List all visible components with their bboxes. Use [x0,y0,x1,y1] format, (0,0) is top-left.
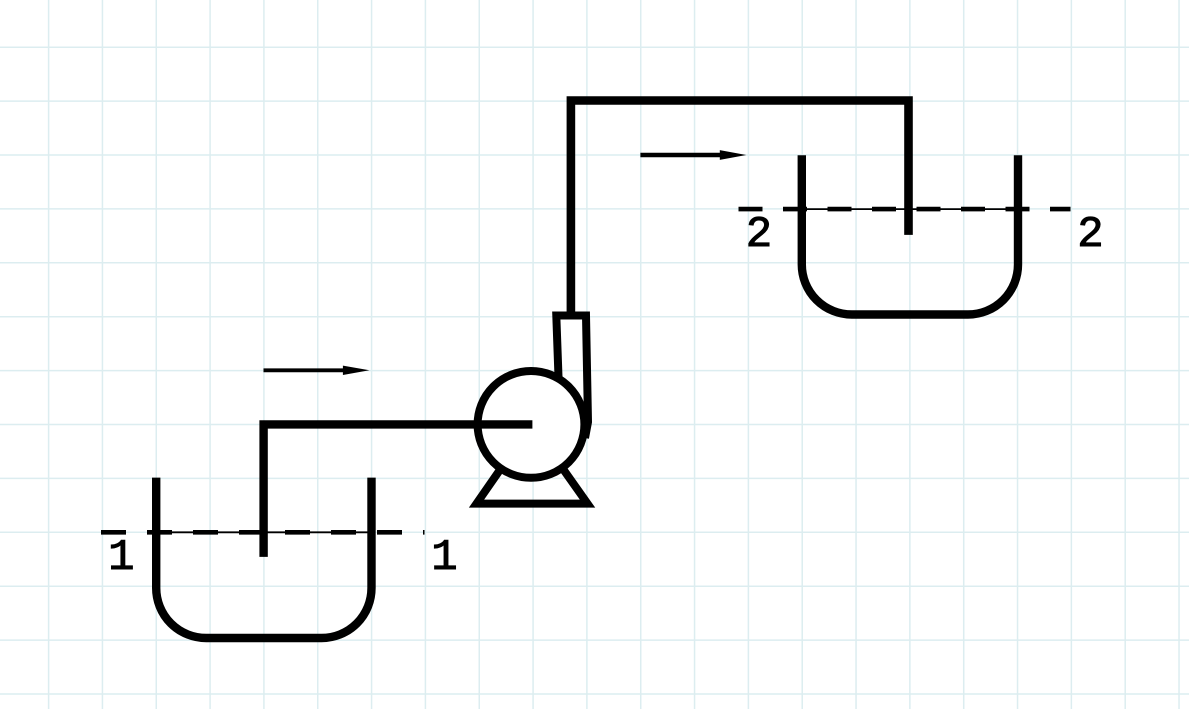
svg-text:2: 2 [746,210,772,260]
svg-text:2: 2 [1077,210,1103,260]
svg-text:1: 1 [431,533,457,583]
svg-text:1: 1 [108,533,134,583]
